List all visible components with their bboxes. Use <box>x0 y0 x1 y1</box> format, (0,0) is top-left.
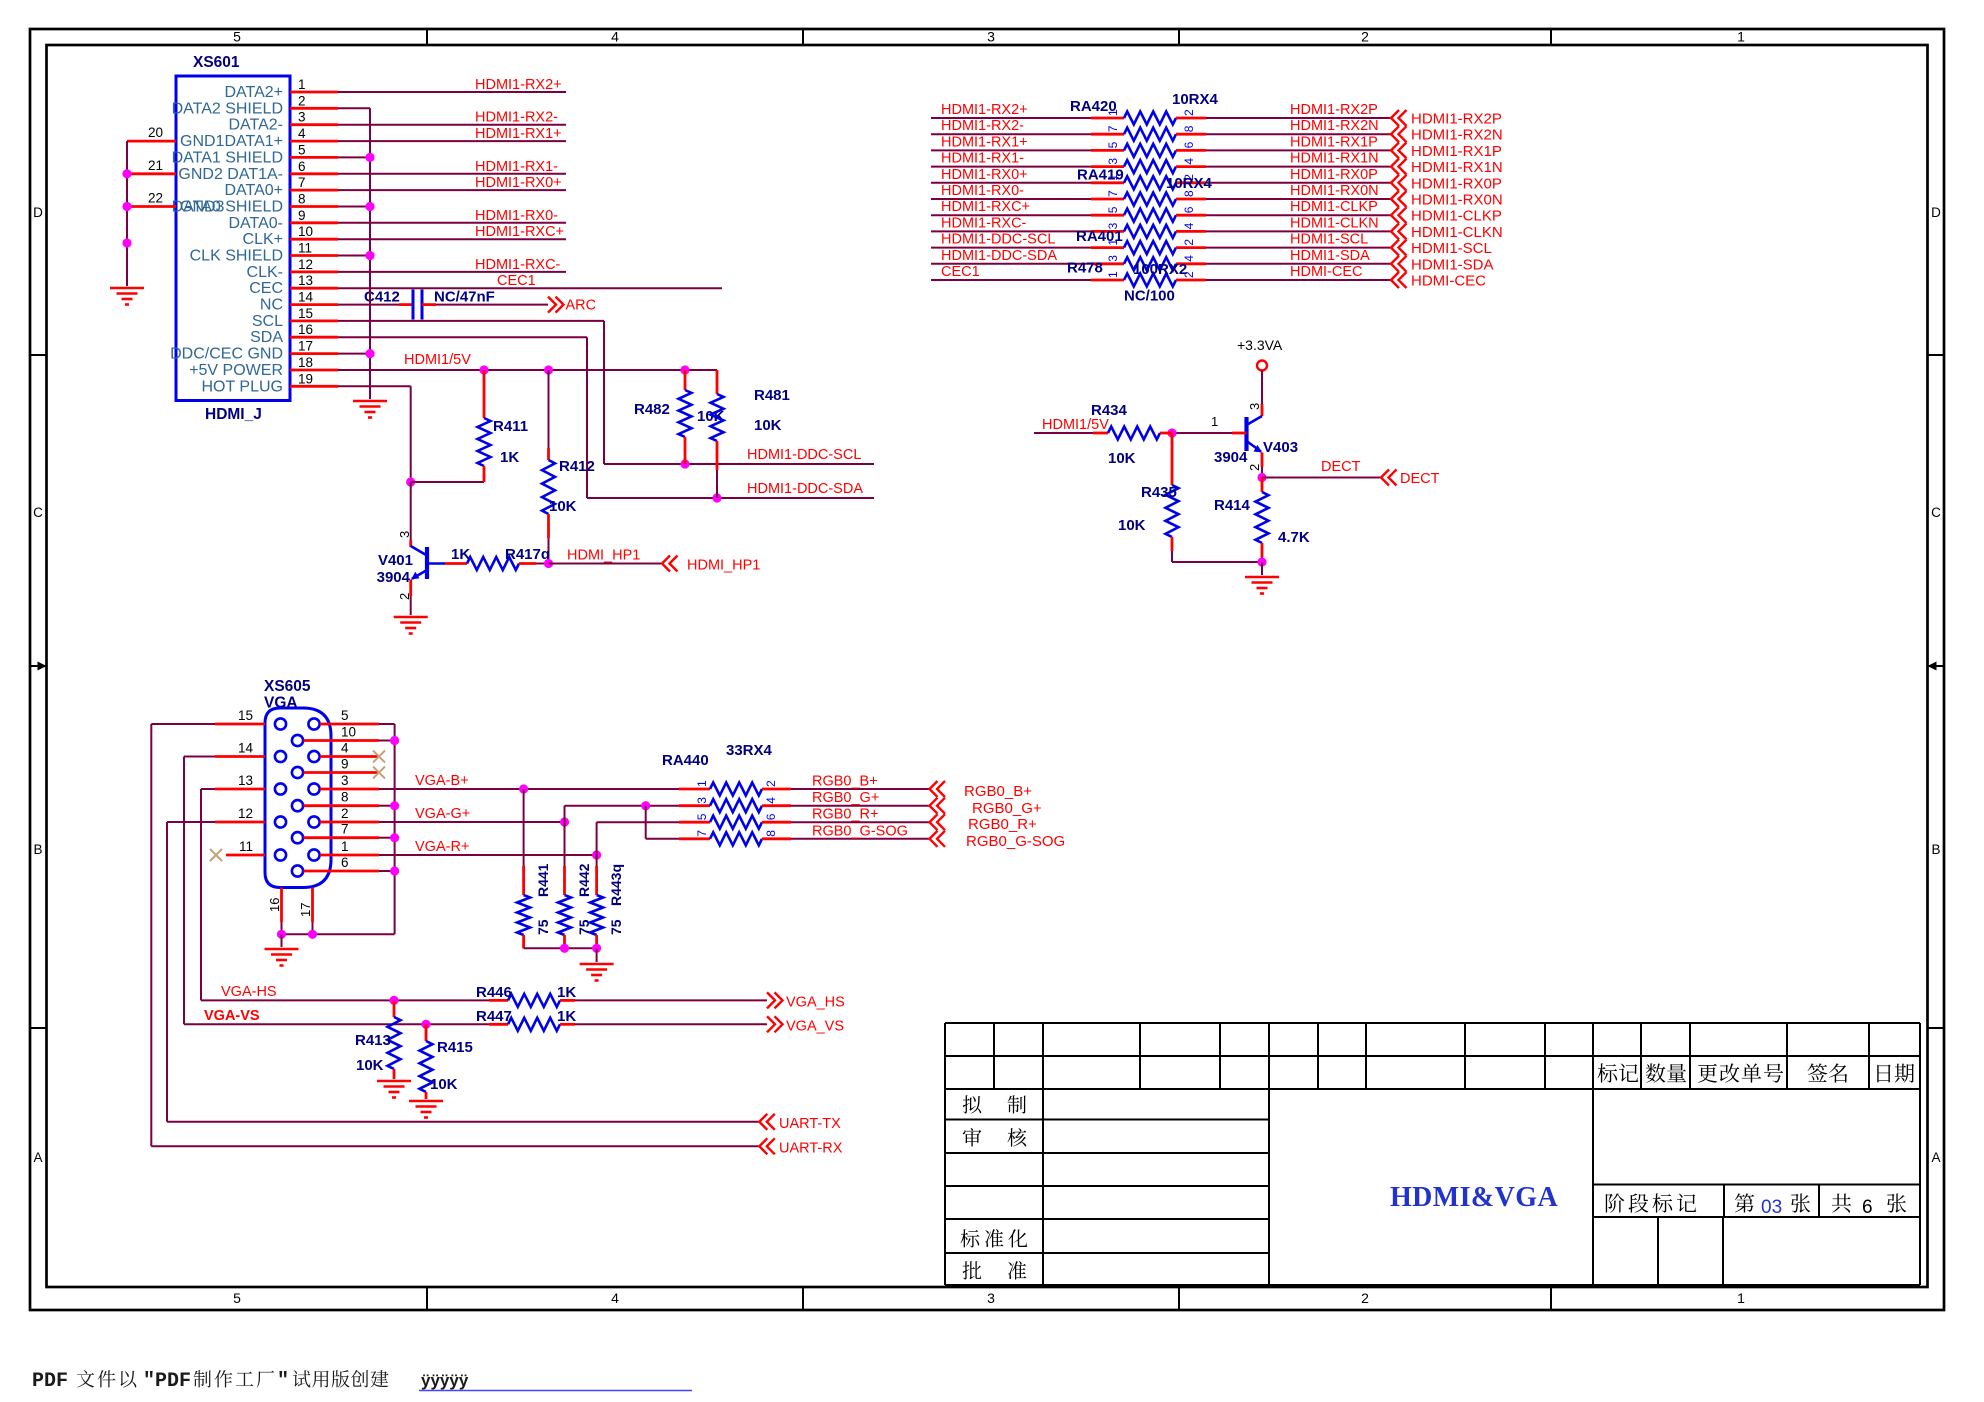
svg-text:CEC: CEC <box>249 280 283 297</box>
wire pin16 to ground <box>281 934 283 947</box>
svg-text:HDMI1-RX1-: HDMI1-RX1- <box>475 159 558 175</box>
svg-text:12: 12 <box>298 257 313 272</box>
svg-text:5: 5 <box>233 1290 241 1306</box>
svg-text:NC/100: NC/100 <box>1124 288 1175 305</box>
svg-text:10K: 10K <box>1118 517 1146 534</box>
svg-text:HDMI1-SCL: HDMI1-SCL <box>1290 232 1368 248</box>
pin 10 stub <box>290 238 338 241</box>
svg-text:VGA-B+: VGA-B+ <box>415 773 469 789</box>
svg-text:DATA1 SHIELD: DATA1 SHIELD <box>172 149 283 166</box>
wire R+ jog up to RA440 pin5 <box>596 822 598 855</box>
svg-text:HDMI_J: HDMI_J <box>205 406 262 423</box>
wire pin7 to shell bus <box>379 837 395 839</box>
svg-text:HDMI1-CLKP: HDMI1-CLKP <box>1290 199 1378 215</box>
wire C412 to ARC port <box>422 303 436 306</box>
wire array row HDMI1-RX1+ <box>931 149 1091 151</box>
base lead <box>427 562 445 565</box>
svg-text:6: 6 <box>298 159 306 174</box>
off-page port HDMI_HP1 <box>662 556 670 572</box>
svg-text:DATA2 SHIELD: DATA2 SHIELD <box>172 100 283 117</box>
junction base/R434/R435 <box>1167 428 1176 437</box>
svg-text:R411: R411 <box>493 418 528 435</box>
svg-text:VGA-VS: VGA-VS <box>204 1008 260 1024</box>
wire pin15 SCL to DDC-SCL row <box>338 320 604 322</box>
pin 11 stub <box>290 254 338 257</box>
pin 9 stub <box>304 771 380 774</box>
svg-text:HDMI1-RX2+: HDMI1-RX2+ <box>475 77 562 93</box>
svg-text:RGB0_B+: RGB0_B+ <box>964 783 1032 800</box>
svg-text:1: 1 <box>1737 29 1745 45</box>
svg-text:HDMI1-RX2+: HDMI1-RX2+ <box>941 102 1028 118</box>
svg-text:R481: R481 <box>754 387 790 404</box>
junction rail R443q <box>592 944 601 953</box>
svg-text:ÿÿÿÿÿ: ÿÿÿÿÿ <box>421 1371 469 1390</box>
svg-text:13: 13 <box>298 273 313 288</box>
svg-text:75: 75 <box>576 919 592 935</box>
pin 14 wire to VGA-VS drop <box>215 755 265 758</box>
off-page port HDMI1-CLKN <box>1391 223 1399 239</box>
pin 13 stub <box>290 287 338 290</box>
connector holes left column <box>275 718 286 729</box>
pin 6 stub <box>304 870 380 873</box>
wire R411 bottom link <box>411 481 484 483</box>
wire array row HDMI1-RX2- <box>931 133 1091 135</box>
svg-text:10: 10 <box>298 224 313 239</box>
svg-text:HDMI1-CLKP: HDMI1-CLKP <box>1411 208 1502 225</box>
svg-text:4: 4 <box>298 126 306 141</box>
array resistor element row 4 <box>1124 160 1176 173</box>
resistor R434 <box>1034 432 1093 434</box>
svg-text:75: 75 <box>535 919 551 935</box>
off-page port HDMI1-SDA <box>1391 256 1399 272</box>
pin 13 wire to VGA-HS drop <box>215 788 265 791</box>
svg-text:VGA_HS: VGA_HS <box>786 995 845 1011</box>
svg-text:HDMI1-RX1N: HDMI1-RX1N <box>1290 151 1379 167</box>
svg-text:R446: R446 <box>476 984 512 1001</box>
off-page port VGA_VS <box>767 1016 775 1032</box>
array resistor element row 11 <box>1124 274 1176 287</box>
junction left bus pin21 <box>122 169 131 178</box>
wire R435 bottom to ground node <box>1172 561 1262 563</box>
off-page port HDMI1-RX2N <box>1391 126 1399 142</box>
svg-text:9: 9 <box>341 757 349 772</box>
wire array row HDMI1-RX0+ <box>931 182 1091 184</box>
off-page port ARC <box>548 297 556 313</box>
svg-text:"PDF: "PDF <box>143 1370 191 1393</box>
svg-text:8: 8 <box>764 830 778 837</box>
ground left bus <box>110 287 144 290</box>
svg-text:B: B <box>33 842 42 857</box>
connector holes right column <box>308 718 319 729</box>
array resistor element row 8 <box>1124 225 1176 238</box>
svg-text:7: 7 <box>1106 190 1120 197</box>
svg-text:HDMI1-RX2P: HDMI1-RX2P <box>1411 111 1502 128</box>
junction emitter/DECT/R414 <box>1257 473 1266 482</box>
svg-text:DATA2+: DATA2+ <box>224 84 283 101</box>
wire pin19 HOT PLUG down <box>338 385 411 387</box>
svg-text:HDMI1-SCL: HDMI1-SCL <box>1411 240 1492 257</box>
junction 5V rail x=685 <box>680 365 689 374</box>
array RA440 element pins 7-8 <box>679 837 710 840</box>
junction R482/SCL <box>680 459 689 468</box>
svg-text:PDF: PDF <box>32 1370 68 1393</box>
pin 22 stub left <box>127 205 176 208</box>
svg-text:D: D <box>1931 205 1941 220</box>
junction shield bus pin5 <box>365 153 374 162</box>
pin 5 stub <box>290 156 338 159</box>
pin 6 stub <box>290 172 338 175</box>
off-page port VGA_HS <box>767 992 775 1008</box>
svg-text:HDMI1-RXC+: HDMI1-RXC+ <box>475 224 564 240</box>
pin 18 stub <box>290 369 338 372</box>
svg-text:V401: V401 <box>378 552 413 569</box>
svg-text:15: 15 <box>298 306 313 321</box>
svg-text:VGA-R+: VGA-R+ <box>415 839 469 855</box>
transistor V403 (3904) <box>1247 416 1263 425</box>
svg-text:HDMI1-SDA: HDMI1-SDA <box>1411 256 1494 273</box>
svg-text:HDMI-CEC: HDMI-CEC <box>1290 264 1363 280</box>
svg-text:7: 7 <box>341 822 349 837</box>
resistor R414 <box>1261 478 1264 493</box>
pin 16 wire <box>280 888 283 923</box>
ground V401 emitter <box>394 616 428 619</box>
pin 4 stub <box>290 140 338 143</box>
svg-text:R414: R414 <box>1214 497 1251 514</box>
junction shield bus pin17 <box>365 349 374 358</box>
svg-text:VGA_VS: VGA_VS <box>786 1018 844 1034</box>
svg-text:10K: 10K <box>754 417 782 434</box>
wire pin5 to shield bus <box>338 156 370 158</box>
svg-text:HOT PLUG: HOT PLUG <box>202 378 284 395</box>
ground XS605 shell <box>265 948 299 951</box>
array resistor element row 1 <box>1124 112 1176 125</box>
svg-text:3: 3 <box>397 531 412 538</box>
off-page port UART-RX <box>759 1138 767 1154</box>
svg-text:UART-RX: UART-RX <box>779 1141 843 1157</box>
svg-text:CEC1: CEC1 <box>941 264 980 280</box>
base stub <box>1232 432 1247 435</box>
svg-text:17: 17 <box>298 339 313 354</box>
resistor R411 <box>483 370 486 418</box>
svg-text:21: 21 <box>148 158 163 173</box>
svg-text:5: 5 <box>298 142 306 157</box>
wire pin10 to shell bus <box>379 740 395 742</box>
sheet total 共6张 <box>1832 1194 1851 1213</box>
wire pin13 net CEC1 <box>338 287 722 289</box>
svg-text:6: 6 <box>1182 206 1196 213</box>
svg-text:3: 3 <box>1106 255 1120 262</box>
off-page port RGB0_G+ <box>930 798 938 814</box>
svg-text:DATA0+: DATA0+ <box>224 182 283 199</box>
zone ticks top/bottom <box>426 29 428 45</box>
wire G-SOG branch down <box>645 806 647 839</box>
resistor R417q <box>467 557 519 570</box>
svg-text:SCL: SCL <box>252 313 283 330</box>
svg-text:2: 2 <box>341 806 349 821</box>
junction 5V rail x=548.5 <box>544 365 553 374</box>
svg-text:7: 7 <box>1106 125 1120 132</box>
ground R415 <box>409 1100 443 1103</box>
array resistor element row 3 <box>1124 144 1176 157</box>
svg-text:RA419: RA419 <box>1077 167 1124 184</box>
svg-text:RA401: RA401 <box>1076 228 1123 245</box>
wire hotplug to V401 collector <box>410 482 412 540</box>
no-connect cross pin 9 <box>373 767 385 779</box>
svg-text:ARC: ARC <box>566 298 597 314</box>
svg-text:1K: 1K <box>451 546 470 563</box>
svg-text:10K: 10K <box>549 498 577 515</box>
svg-text:XS601: XS601 <box>193 54 240 71</box>
pin 2 stub <box>290 107 338 110</box>
wire pin8 to shell bus <box>379 805 395 807</box>
pin 20 stub left <box>127 140 176 143</box>
svg-text:14: 14 <box>298 290 314 305</box>
off-page port RGB0_B+ <box>930 781 938 797</box>
resistor R446 <box>489 999 508 1002</box>
wire array row HDMI1-RX2+ <box>931 117 1091 119</box>
wire pin4 net HDMI1-RX1+ <box>338 140 566 142</box>
pin 3 stub <box>320 788 379 791</box>
svg-text:13: 13 <box>238 773 253 788</box>
array RA440 element pins 3-4 <box>679 804 710 807</box>
svg-text:HDMI1-SDA: HDMI1-SDA <box>1290 248 1370 264</box>
junction G/G-SOG branch <box>641 801 650 810</box>
svg-text:2: 2 <box>1361 29 1369 45</box>
svg-text:1: 1 <box>1737 1290 1745 1306</box>
emitter wire to ground <box>409 580 412 597</box>
svg-text:8: 8 <box>298 192 306 207</box>
svg-text:6: 6 <box>764 813 778 820</box>
svg-text:R478: R478 <box>1067 260 1103 277</box>
svg-text:HDMI1-DDC-SCL: HDMI1-DDC-SCL <box>747 447 861 463</box>
junction shield bus pin11 <box>365 251 374 260</box>
zone ticks left/right <box>30 354 47 356</box>
off-page port UART-TX <box>759 1114 767 1130</box>
off-page port HDMI1-RX1P <box>1391 142 1399 158</box>
title label 批准 <box>963 1261 982 1279</box>
svg-text:RGB0_R+: RGB0_R+ <box>968 816 1037 833</box>
svg-text:HDMI1-DDC-SCL: HDMI1-DDC-SCL <box>941 232 1055 248</box>
wire array row HDMI1-DDC-SDA <box>931 263 1091 265</box>
pin 19 stub <box>290 385 338 388</box>
svg-text:5: 5 <box>1106 206 1120 213</box>
svg-text:3: 3 <box>987 1290 995 1306</box>
svg-text:RGB0_B+: RGB0_B+ <box>812 774 878 790</box>
pin 9 stub <box>290 221 338 224</box>
wire VGA-G+ row <box>379 821 565 823</box>
svg-text:HDMI1-RX0P: HDMI1-RX0P <box>1290 167 1378 183</box>
junction left bus pin22 <box>122 202 131 211</box>
svg-text:5: 5 <box>695 813 709 820</box>
junction R+/R443q <box>592 850 601 859</box>
pin 16 stub <box>290 336 338 339</box>
svg-text:3904: 3904 <box>1214 449 1248 466</box>
svg-text:3: 3 <box>298 110 306 125</box>
junction ground node <box>1257 557 1266 566</box>
svg-text:VGA-HS: VGA-HS <box>221 984 277 1000</box>
svg-text:4: 4 <box>611 1290 619 1306</box>
svg-text:HDMI1-RX2-: HDMI1-RX2- <box>941 118 1024 134</box>
svg-text:6: 6 <box>341 855 349 870</box>
svg-text:HDMI1-RX1+: HDMI1-RX1+ <box>941 134 1028 150</box>
resistor R435 <box>1171 433 1174 485</box>
wire pin8 to shield bus <box>338 206 370 208</box>
svg-text:10K: 10K <box>430 1076 458 1093</box>
svg-text:3: 3 <box>695 797 709 804</box>
title label 标准化 <box>960 1229 979 1247</box>
resistor R441 <box>523 789 525 866</box>
off-page port HDMI1-RX0P <box>1391 175 1399 191</box>
wire pin1 net HDMI1-RX2+ <box>338 91 566 93</box>
svg-text:+5V POWER: +5V POWER <box>189 362 283 379</box>
svg-text:RGB0_G-SOG: RGB0_G-SOG <box>966 833 1065 850</box>
svg-text:HDMI1-DDC-SDA: HDMI1-DDC-SDA <box>941 248 1057 264</box>
junction rail pin16 <box>277 930 286 939</box>
svg-text:2: 2 <box>1182 239 1196 246</box>
junction rail R442 <box>560 944 569 953</box>
svg-text:3: 3 <box>1247 403 1262 410</box>
ground R44x <box>580 963 614 966</box>
wire HDMI1-DDC-SDA row <box>587 497 874 499</box>
svg-text:HDMI1-RX1P: HDMI1-RX1P <box>1290 134 1378 150</box>
svg-text:HDMI1-RXC-: HDMI1-RXC- <box>941 215 1027 231</box>
svg-text:HDMI1-RX2N: HDMI1-RX2N <box>1290 118 1379 134</box>
array resistor element row 7 <box>1124 209 1176 222</box>
pin 12 stub <box>290 270 338 273</box>
wire pin14 to C412 <box>338 304 399 306</box>
svg-text:10K: 10K <box>356 1057 384 1074</box>
svg-text:R417q: R417q <box>505 546 550 563</box>
junction HS/R413 <box>389 996 398 1005</box>
wire pin16 SDA to DDC-SDA row <box>338 336 587 338</box>
svg-text:5: 5 <box>1106 141 1120 148</box>
mid-page arrow right <box>1928 665 1945 667</box>
svg-text:HDMI1-RX2-: HDMI1-RX2- <box>475 110 558 126</box>
svg-text:GND2 DAT1A-: GND2 DAT1A- <box>178 166 283 183</box>
sheet number 第03张 <box>1735 1193 1754 1212</box>
svg-text:2: 2 <box>764 780 778 787</box>
wire pin7 net HDMI1-RX0+ <box>338 189 566 191</box>
svg-text:R441: R441 <box>535 863 551 897</box>
junction 5V rail x=484 <box>479 365 488 374</box>
pin 12 wire to UART-TX drop <box>215 821 265 824</box>
svg-text:11: 11 <box>239 839 253 854</box>
title label 阶段标记 <box>1606 1193 1625 1212</box>
pin 8 stub <box>290 205 338 208</box>
wire DECT <box>1262 477 1381 479</box>
no-connect cross pin 4 <box>373 751 385 763</box>
svg-text:CLK-: CLK- <box>247 264 283 281</box>
svg-text:6: 6 <box>1182 141 1196 148</box>
svg-text:1K: 1K <box>557 984 576 1001</box>
junction R481/SDA <box>712 493 721 502</box>
connector holes middle column <box>292 735 303 746</box>
pin 17 stub <box>290 352 338 355</box>
svg-text:4: 4 <box>764 797 778 804</box>
svg-text:HDMI_HP1: HDMI_HP1 <box>567 548 640 564</box>
svg-text:HDMI1-RX0-: HDMI1-RX0- <box>475 208 558 224</box>
svg-text:22: 22 <box>148 191 163 206</box>
svg-text:NC: NC <box>260 297 283 314</box>
svg-text:1: 1 <box>1106 271 1120 278</box>
svg-text:8: 8 <box>1182 125 1196 132</box>
svg-text:1K: 1K <box>557 1008 576 1025</box>
svg-text:RGB0_G+: RGB0_G+ <box>972 800 1042 817</box>
pin 8 stub <box>304 804 380 807</box>
svg-text:HDMI1/5V: HDMI1/5V <box>1042 417 1109 433</box>
array resistor element row 2 <box>1124 128 1176 141</box>
off-page port HDMI1-RX2P <box>1391 110 1399 126</box>
svg-text:RGB0_G-SOG: RGB0_G-SOG <box>812 823 908 839</box>
pin 4 stub <box>320 755 379 758</box>
svg-text:4: 4 <box>1182 222 1196 229</box>
svg-text:18: 18 <box>298 355 313 370</box>
svg-text:VGA-G+: VGA-G+ <box>415 806 470 822</box>
wire VGA-VS row <box>184 1023 489 1025</box>
svg-text:HDMI1-RX0+: HDMI1-RX0+ <box>475 175 562 191</box>
resistor R481 <box>716 370 719 394</box>
wire pin9 net HDMI1-RX0- <box>338 222 566 224</box>
off-page port HDMI1-CLKP <box>1391 207 1399 223</box>
junction VS/R415 <box>421 1020 430 1029</box>
svg-text:DATA0-: DATA0- <box>228 215 283 232</box>
pin 14 stub <box>290 303 338 306</box>
capacitor C412 <box>412 290 415 320</box>
pin 2 stub <box>320 821 379 824</box>
pin 10 stub <box>304 739 380 742</box>
wire 3.3VA to V403 collector <box>1261 371 1263 405</box>
svg-text:HDMI1-RXC+: HDMI1-RXC+ <box>941 199 1030 215</box>
wire to VGA_VS port <box>575 1023 767 1025</box>
svg-text:1: 1 <box>695 780 709 787</box>
pin 15 wire to UART-RX drop <box>215 723 265 726</box>
wire UART-TX <box>167 1121 759 1123</box>
svg-text:HDMI1-RX0P: HDMI1-RX0P <box>1411 175 1502 192</box>
wire VGA-HS row <box>201 999 489 1001</box>
svg-text:14: 14 <box>238 741 254 756</box>
svg-text:75: 75 <box>608 919 624 935</box>
wire to ground <box>596 948 598 962</box>
junction base/R412 <box>544 559 553 568</box>
svg-text:HDMI1/5V: HDMI1/5V <box>404 352 471 368</box>
wire shield bus vertical <box>338 107 370 109</box>
junction B+/R441 <box>519 784 528 793</box>
wire VGA-R+ row <box>379 854 597 856</box>
svg-text:UART-TX: UART-TX <box>779 1116 841 1132</box>
pin 5 stub <box>320 723 379 726</box>
svg-text:2: 2 <box>298 93 306 108</box>
svg-text:2: 2 <box>1361 1290 1369 1306</box>
resistor R442 <box>564 822 566 866</box>
svg-text:5: 5 <box>233 29 241 45</box>
mid-page arrow left <box>30 665 47 667</box>
pin 1 stub <box>290 91 338 94</box>
svg-text:1: 1 <box>1211 414 1218 429</box>
svg-text:RA420: RA420 <box>1070 98 1117 115</box>
svg-text:R412: R412 <box>559 458 595 475</box>
off-page port HDMI-CEC <box>1391 272 1399 288</box>
wire to ground <box>1261 562 1263 575</box>
svg-text:HDMI&VGA: HDMI&VGA <box>1390 1182 1558 1213</box>
wire to VGA_HS port <box>575 999 767 1001</box>
svg-text:DECT: DECT <box>1321 459 1361 475</box>
off-page port HDMI1-RX0N <box>1391 191 1399 207</box>
wire UART-RX <box>151 1145 759 1147</box>
svg-text:HDMI1-RX0+: HDMI1-RX0+ <box>941 167 1028 183</box>
wire pin6 net HDMI1-RX1- <box>338 173 566 175</box>
svg-text:R415: R415 <box>437 1039 473 1056</box>
svg-text:CLK+: CLK+ <box>243 231 283 248</box>
